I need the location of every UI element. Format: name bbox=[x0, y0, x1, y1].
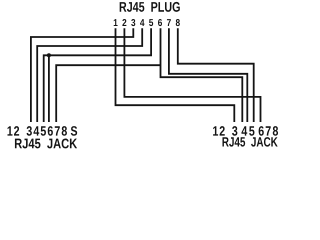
wire plug pin 3 to left jack pin 3 bbox=[31, 28, 133, 122]
wire plug pin 6 to right jack pin 4 bbox=[161, 28, 243, 122]
wire plug pin 4 to left jack pin 4 bbox=[37, 28, 142, 122]
wire plug pin 2 to right jack pin 7 bbox=[124, 28, 260, 122]
wire plug pin 5 to left jack pin 5 bbox=[44, 28, 151, 122]
wire plug pin 1 to right jack pin 3 bbox=[116, 28, 235, 122]
wire row to left jack pin 7 bbox=[56, 65, 160, 122]
junction dot bbox=[47, 53, 51, 57]
wire plug pin 7 to right jack pin 5 bbox=[169, 28, 247, 122]
left jack pin numbers bbox=[8, 126, 78, 136]
label RJ45 JACK left bbox=[15, 139, 77, 149]
right jack pin numbers bbox=[213, 126, 278, 136]
plug pin numbers bbox=[114, 19, 180, 26]
label RJ45 JACK right bbox=[222, 137, 277, 147]
wire branch left jack pin 6 bbox=[48, 55, 50, 122]
label RJ45 PLUG bbox=[120, 2, 180, 12]
wire plug pin 8 to right jack pin 6 bbox=[178, 28, 254, 122]
